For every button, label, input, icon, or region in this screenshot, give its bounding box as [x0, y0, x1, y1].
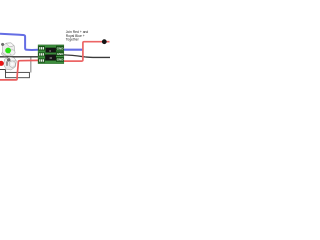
svg-text:GND: GND	[57, 46, 64, 50]
svg-text:GND: GND	[57, 52, 64, 56]
svg-text:Together: Together	[66, 38, 80, 42]
svg-text:GND: GND	[57, 58, 64, 62]
